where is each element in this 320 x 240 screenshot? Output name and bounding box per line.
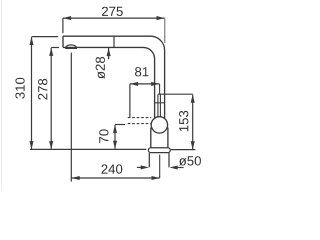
dimension 70 top reference [115,124,125,126]
handle lever dashed bottom line [128,123,152,125]
hose collar tick [155,102,165,104]
dimension 153 top reference [158,93,193,95]
label diameter 50 [179,156,201,165]
arrow 70 top [113,125,117,133]
arrow 275 right [157,16,165,20]
arrow 240 left [72,176,80,180]
arrow 153 top [191,95,195,103]
label 81 [135,67,148,76]
page left faint border [1,0,3,191]
countertop baseline right of flange [171,149,195,151]
aerator ring thick base [65,47,77,49]
handle lever dashed top line [128,117,152,119]
label 153 [179,111,188,131]
dimension diameter-28 shaft [108,48,110,59]
countertop baseline left of flange [30,148,146,150]
aerator dome on spout underside [66,45,77,48]
label 70 [99,129,108,143]
dimension 275 line [63,17,165,19]
arrow 70 bottom [113,141,117,149]
dimension 81 drop to lever tip [129,84,131,118]
arrow 278 top [49,48,53,56]
arrow 240 right [152,176,160,180]
label 240 [101,164,122,173]
dimension 275 left drop [62,18,64,33]
arrow 81 left [130,82,138,86]
dimension 310 top reference [32,36,59,38]
dimension 81 line [130,83,160,85]
label diameter 28 [96,57,105,79]
dimension diameter-50 right leader [177,167,184,169]
label 275 [102,7,123,16]
arrow 310 top [29,37,33,45]
faucet center line [159,155,161,178]
dimension diameter-28 arrow [107,48,111,56]
dimension 153 line [192,95,194,150]
body column left edge [150,128,152,148]
shank right edge [168,153,170,168]
center reference stub above collar [159,84,161,94]
base flange [148,148,170,153]
spray-head joint line in spout [113,37,115,48]
dimension 278 top reference [51,47,59,49]
ball joint circle [151,117,167,133]
arrow 278 bottom [49,141,53,149]
arrow 81 right [151,82,159,86]
dimension diameter-50 left arrow tail [137,166,141,168]
dimension 278 line [50,48,52,149]
dimension 275 right drop (faint) [164,18,166,43]
faucet spout bottom edge into pipe inner side [63,47,155,118]
body column right edge [167,128,169,148]
dimension 70 line [114,125,116,149]
faucet spout outer outline into vertical pipe [63,36,165,118]
arrow diameter-50 right (points left at shank) [170,165,178,169]
inner hose line left [157,94,159,117]
label 278 [38,79,47,100]
label 310 [15,78,24,99]
faucet spout tip left edge [62,36,64,47]
arrow diameter-50 left (points right at shank) [141,165,149,169]
outlet extension line from aerator to below [70,53,72,182]
shank left edge [148,153,150,168]
arrow 153 bottom [191,141,195,149]
arrow 310 bottom [29,141,33,149]
arrow 275 left [63,16,71,20]
dimension 310 line [31,37,33,149]
dimension 240 line [72,177,160,179]
inner hose line right [159,94,161,118]
